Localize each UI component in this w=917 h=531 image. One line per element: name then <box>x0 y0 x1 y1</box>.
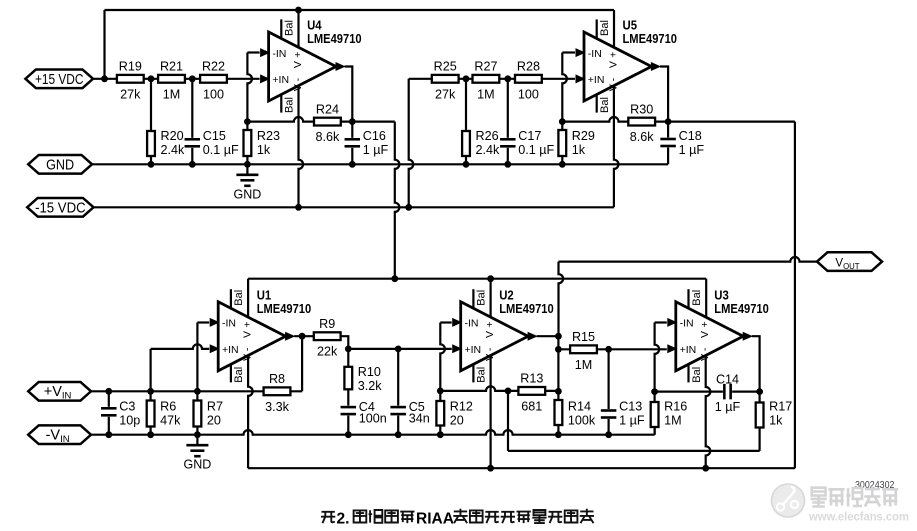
flag +15 VDC <box>25 70 93 89</box>
wire U1 V- pin drop + V- rail <box>248 356 795 469</box>
wire R7 drop <box>196 391 198 434</box>
resistor R6 <box>147 399 181 427</box>
wire R14 drop <box>557 391 559 434</box>
svg-text:47k: 47k <box>160 413 181 427</box>
node U2 V+ on rail <box>487 275 494 282</box>
op-amp U2 output arrow <box>528 332 538 341</box>
wire U4 V+ pin <box>297 10 299 48</box>
resistor R16 <box>651 399 688 427</box>
svg-text:R12: R12 <box>450 399 473 413</box>
svg-text:-IN: -IN <box>222 318 236 330</box>
svg-text:Bal: Bal <box>284 20 296 36</box>
svg-text:V- V+: V- V+ <box>607 48 619 91</box>
capacitor C17 <box>499 129 555 157</box>
svg-text:R16: R16 <box>664 399 687 413</box>
svg-text:1 µF: 1 µF <box>619 413 645 427</box>
wire U2 V- pin drop <box>490 356 492 469</box>
op-amp U3 body <box>676 287 769 371</box>
op-amp U1 +IN arrow <box>210 344 220 353</box>
node C3 top <box>105 388 112 395</box>
svg-text:+IN: +IN <box>680 344 697 356</box>
wire R25 feed from -15 bus <box>409 79 432 208</box>
svg-text:R24: R24 <box>316 102 339 116</box>
wire R23 drop <box>246 122 248 165</box>
wire R20 drop <box>150 79 152 165</box>
op-amp U4 output arrow <box>336 62 346 71</box>
node R16 top/-IN U3 <box>651 388 658 395</box>
svg-text:C15: C15 <box>203 129 226 143</box>
node U3 V- on rail <box>702 465 709 472</box>
wire U5 V+ pin <box>613 10 615 48</box>
svg-text:R14: R14 <box>568 399 591 413</box>
svg-text:Bal: Bal <box>599 97 611 113</box>
svg-text:R25: R25 <box>434 60 457 74</box>
svg-text:R27: R27 <box>474 60 497 74</box>
node U1 out <box>299 333 306 340</box>
svg-text:1 µF: 1 µF <box>679 143 705 157</box>
svg-text:1M: 1M <box>664 413 682 427</box>
node R29/R30/-IN U5 <box>559 118 566 125</box>
resistor R17 <box>756 399 793 427</box>
svg-text:1M: 1M <box>575 358 593 372</box>
op-amp U4 Bal pin bottom <box>281 94 295 112</box>
node R12 bottom <box>437 431 444 438</box>
svg-text:V- V+: V- V+ <box>292 48 304 91</box>
node R27/R28/C17 <box>504 75 511 82</box>
op-amp U5 Bal pin bottom <box>597 94 611 112</box>
node U3 out/R17/C14 <box>756 388 763 395</box>
node C16 gnd <box>349 161 356 168</box>
svg-text:R8: R8 <box>269 372 285 386</box>
op-amp U2 -IN arrow <box>452 318 462 327</box>
wire R12 drop <box>439 391 441 435</box>
svg-text:+IN: +IN <box>588 74 605 86</box>
svg-text:681: 681 <box>521 399 542 413</box>
wire R10 C4 drop <box>347 349 349 435</box>
op-amp U5 Bal pin top <box>597 19 611 38</box>
wire +15V top rail <box>105 10 615 79</box>
node R13/R14 <box>555 388 562 395</box>
svg-text:C3: C3 <box>119 399 135 413</box>
svg-text:R19: R19 <box>119 60 142 74</box>
svg-text:LME49710: LME49710 <box>257 301 312 316</box>
op-amp U2 Bal pin top <box>473 289 487 308</box>
capacitor C18 <box>659 129 704 157</box>
op-amp U4 Bal pin top <box>281 19 295 38</box>
op-amp U4 body <box>269 18 362 102</box>
wire C13 drop <box>607 349 609 434</box>
resistor R29 <box>558 129 595 157</box>
svg-text:R9: R9 <box>319 317 335 331</box>
node R21/R22/C15 <box>189 75 196 82</box>
ground below R7 <box>184 435 212 472</box>
svg-text:R20: R20 <box>161 129 184 143</box>
svg-text:GND: GND <box>46 156 74 173</box>
node R15 left <box>555 346 562 353</box>
node R7/R8/+VIN <box>194 388 201 395</box>
svg-text:20: 20 <box>450 413 464 427</box>
wire -VIN bus <box>91 426 655 435</box>
flag GND <box>28 155 92 174</box>
resistor R28 <box>515 60 542 102</box>
svg-text:R28: R28 <box>517 60 540 74</box>
svg-text:-IN: -IN <box>272 48 286 60</box>
op-amp U2 Bal pin bottom <box>473 364 487 382</box>
node U4 V+ on +15 rail <box>295 7 302 14</box>
svg-text:C13: C13 <box>619 399 642 413</box>
resistor R9 <box>314 317 341 359</box>
svg-text:R10: R10 <box>358 365 381 379</box>
op-amp U3 +IN arrow <box>667 344 677 353</box>
capacitor C4 <box>340 400 387 426</box>
op-amp U3 -IN arrow <box>667 318 677 327</box>
svg-text:GND: GND <box>184 458 212 472</box>
wire C15 drop <box>191 79 193 165</box>
op-amp U1 Bal pin top <box>231 289 245 308</box>
wire U5 -IN loop <box>562 53 575 122</box>
svg-text:-IN: -IN <box>465 318 479 330</box>
svg-text:C14: C14 <box>716 372 739 386</box>
node C17 gnd <box>504 161 511 168</box>
op-amp U4 -IN arrow <box>260 48 270 57</box>
svg-text:C18: C18 <box>679 129 702 143</box>
op-amp U5 +IN arrow <box>576 74 586 83</box>
wire C5 drop <box>397 349 399 435</box>
resistor R8 <box>264 372 291 414</box>
node R25 feed on -15 bus <box>405 204 412 211</box>
figure number 30024302 <box>855 480 895 491</box>
wire U1 +IN wire <box>151 344 210 391</box>
svg-text:C16: C16 <box>363 129 386 143</box>
svg-text:LME49710: LME49710 <box>307 31 362 46</box>
svg-text:Bal: Bal <box>233 290 245 306</box>
node C4 bottom <box>345 431 352 438</box>
wire C17 drop <box>507 79 509 165</box>
svg-text:R13: R13 <box>520 372 543 386</box>
svg-text:R21: R21 <box>160 60 183 74</box>
op-amp U1 Bal pin bottom <box>231 364 245 382</box>
svg-text:100k: 100k <box>568 413 596 427</box>
resistor R13 <box>518 372 545 414</box>
svg-text:1M: 1M <box>477 87 495 101</box>
resistor R19 <box>117 60 144 102</box>
op-amp U1 body <box>218 287 311 371</box>
svg-text:V- V+: V- V+ <box>484 318 496 361</box>
wire R12-R13-R14 row <box>440 386 558 391</box>
capacitor C5 <box>389 400 429 426</box>
svg-text:-IN: -IN <box>680 318 694 330</box>
op-amp U5 body <box>584 18 677 102</box>
svg-text:R22: R22 <box>202 60 225 74</box>
node U2 out <box>555 333 562 340</box>
op-amp U3 Bal pin top <box>689 289 703 308</box>
wire U5 output <box>660 67 668 122</box>
wire R29 drop <box>561 122 563 165</box>
wire C18 drop <box>667 122 669 165</box>
svg-text:Bal: Bal <box>476 367 488 383</box>
svg-text:1k: 1k <box>572 143 586 157</box>
svg-text:-15 VDC: -15 VDC <box>35 199 86 216</box>
wire GND bus <box>92 163 668 165</box>
node R6 top <box>147 388 154 395</box>
wire U4 feedback row R24 <box>247 117 352 122</box>
wire R25-R28 to U5 +IN <box>432 78 575 80</box>
svg-text:Bal: Bal <box>691 367 703 383</box>
wire U5 V- pin drop <box>614 86 619 208</box>
wire U1 output R9 row <box>294 336 348 349</box>
svg-text:R26: R26 <box>476 129 499 143</box>
node +15F on V+ rail <box>391 275 398 282</box>
svg-text:1 µF: 1 µF <box>715 400 741 414</box>
node R6 bottom <box>147 431 154 438</box>
svg-text:8.6k: 8.6k <box>315 130 340 144</box>
wire R13 tap down to R17 <box>508 391 760 451</box>
wire R6 drop <box>150 391 152 434</box>
svg-text:LME49710: LME49710 <box>499 301 554 316</box>
svg-text:0.1 µF: 0.1 µF <box>203 143 239 157</box>
node R23 gnd <box>244 161 251 168</box>
svg-text:Bal: Bal <box>691 290 703 306</box>
resistor R20 <box>147 129 185 157</box>
wire U1 -IN loop <box>197 323 209 392</box>
svg-text:1 µF: 1 µF <box>363 143 389 157</box>
watermark brand text <box>811 487 899 507</box>
svg-text:R30: R30 <box>630 102 653 116</box>
node R15/C13 <box>605 346 612 353</box>
wire R16 drop <box>653 392 655 435</box>
wire U4 V- pin drop <box>299 86 304 208</box>
watermark url <box>808 510 909 524</box>
node R12 top/-IN U2 <box>437 388 444 395</box>
flag +VIN <box>28 382 91 402</box>
wire U2 -IN loop <box>440 323 451 391</box>
node C5 bottom <box>395 431 402 438</box>
capacitor C14 <box>715 372 741 414</box>
svg-text:100: 100 <box>203 87 224 101</box>
wire U4 out to V+ rail <box>352 122 399 279</box>
wire C3 drop <box>108 391 110 434</box>
wire V+ rail bottom section <box>248 279 706 318</box>
resistor R27 <box>473 60 500 102</box>
wire U3 V- pin drop <box>706 356 711 469</box>
svg-text:Bal: Bal <box>233 367 245 383</box>
svg-text:34n: 34n <box>409 412 430 426</box>
op-amp U3 output arrow <box>743 332 753 341</box>
svg-text:C17: C17 <box>518 129 541 143</box>
svg-text:R7: R7 <box>207 399 223 413</box>
svg-text:2.4k: 2.4k <box>161 143 186 157</box>
svg-text:1k: 1k <box>769 413 783 427</box>
ground below R23 <box>234 164 262 201</box>
wire +IN row U1-U2 <box>348 348 451 350</box>
capacitor C16 <box>344 129 389 157</box>
svg-text:+IN: +IN <box>465 344 482 356</box>
wire C16 drop <box>351 122 353 165</box>
capacitor C13 <box>600 399 645 427</box>
node C3 bottom <box>105 431 112 438</box>
svg-text:2.: 2. <box>337 510 350 527</box>
caption figure 2 text <box>321 509 594 528</box>
wire C14 row <box>655 391 760 393</box>
node R24/C16/U4 out <box>349 118 356 125</box>
svg-text:LME49710: LME49710 <box>714 301 769 316</box>
svg-text:V- V+: V- V+ <box>699 318 711 361</box>
capacitor C15 <box>184 129 240 157</box>
svg-text:R29: R29 <box>572 129 595 143</box>
node R20 gnd <box>148 161 155 168</box>
node C15 gnd <box>189 161 196 168</box>
node U4 V- on -15 bus <box>295 204 302 211</box>
svg-text:Bal: Bal <box>284 97 296 113</box>
svg-text:R23: R23 <box>257 129 280 143</box>
svg-text:100: 100 <box>518 87 539 101</box>
op-amp U5 output arrow <box>651 62 661 71</box>
wire U4 output <box>345 67 353 122</box>
node U2 V- on rail <box>487 465 494 472</box>
wire U5 feedback row R30 <box>562 117 668 122</box>
op-amp U1 output arrow <box>285 332 295 341</box>
op-amp U1 -IN arrow <box>210 318 220 327</box>
svg-text:1k: 1k <box>257 143 271 157</box>
svg-text:www.elecfans.com: www.elecfans.com <box>808 510 909 524</box>
svg-text:V- V+: V- V+ <box>242 318 254 361</box>
resistor R25 <box>432 60 459 102</box>
resistor R23 <box>244 129 281 157</box>
svg-text:RIAA: RIAA <box>416 510 454 527</box>
node R7 bottom gnd <box>194 431 201 438</box>
wire U2 V+ pin <box>490 279 492 318</box>
wire +15 VDC feed R19-R22 to U4 +IN <box>93 78 260 80</box>
node C13 bottom <box>605 431 612 438</box>
node R29 gnd <box>559 161 566 168</box>
node R13 left tap <box>505 388 512 395</box>
svg-text:R15: R15 <box>572 330 595 344</box>
node +15 junction <box>101 75 108 82</box>
node R9/R10 <box>345 346 352 353</box>
resistor R22 <box>200 60 227 102</box>
wire +VIN feed to R8 <box>91 336 302 391</box>
resistor R15 <box>570 330 597 372</box>
op-amp U2 +IN arrow <box>452 344 462 353</box>
node R30/C18/U5 out <box>665 118 672 125</box>
node C5 top <box>395 346 402 353</box>
node R23/R24/-IN U4 <box>244 118 251 125</box>
resistor R7 <box>194 399 224 427</box>
svg-text:3.2k: 3.2k <box>358 379 383 393</box>
flag VOUT <box>817 252 882 271</box>
svg-text:R17: R17 <box>769 399 792 413</box>
svg-text:3.3k: 3.3k <box>265 400 290 414</box>
resistor R21 <box>158 60 185 102</box>
svg-text:Bal: Bal <box>476 290 488 306</box>
svg-text:+IN: +IN <box>222 344 239 356</box>
resistor R24 <box>314 102 341 144</box>
resistor R14 <box>555 399 596 427</box>
op-amp U2 body <box>461 287 554 371</box>
wire U4 -IN loop <box>247 53 259 122</box>
svg-text:0.1 µF: 0.1 µF <box>518 143 554 157</box>
node R19/R21/R20 <box>148 75 155 82</box>
wire U3 -IN loop <box>655 323 667 392</box>
svg-text:100n: 100n <box>359 412 387 426</box>
wire U3 output <box>752 336 760 391</box>
svg-text:10p: 10p <box>119 413 140 427</box>
svg-text:LME49710: LME49710 <box>623 31 678 46</box>
watermark logo <box>772 484 805 517</box>
wire R15 row to U3 +IN <box>558 348 666 350</box>
svg-text:1M: 1M <box>163 87 181 101</box>
node R14 bottom <box>555 431 562 438</box>
flag -VIN <box>28 425 91 445</box>
wire U5 out to V- rail <box>668 122 795 469</box>
svg-text:27k: 27k <box>435 87 456 101</box>
svg-text:22k: 22k <box>317 345 338 359</box>
flag -15 VDC <box>27 198 93 217</box>
svg-text:27k: 27k <box>120 87 141 101</box>
svg-text:8.6k: 8.6k <box>630 130 655 144</box>
node R26 gnd <box>463 161 470 168</box>
svg-text:+IN: +IN <box>272 74 289 86</box>
node R25/R27/R26 <box>463 75 470 82</box>
wire VOUT <box>559 257 818 336</box>
svg-text:+15 VDC: +15 VDC <box>35 71 84 88</box>
svg-text:2.4k: 2.4k <box>476 143 501 157</box>
resistor R26 <box>462 129 500 157</box>
svg-text:20: 20 <box>207 413 221 427</box>
wire R26 drop <box>465 79 467 165</box>
resistor R12 <box>436 399 473 427</box>
wire U2 output <box>537 336 559 391</box>
svg-text:Bal: Bal <box>599 20 611 36</box>
capacitor C3 <box>100 399 140 427</box>
resistor R30 <box>628 102 655 144</box>
wire -15 VDC bus <box>94 206 614 208</box>
svg-text:GND: GND <box>234 187 262 201</box>
op-amp U3 Bal pin bottom <box>689 364 703 382</box>
svg-text:R6: R6 <box>160 399 176 413</box>
resistor R10 <box>344 365 382 393</box>
op-amp U5 -IN arrow <box>576 48 586 57</box>
op-amp U4 +IN arrow <box>260 74 270 83</box>
svg-text:-IN: -IN <box>588 48 602 60</box>
